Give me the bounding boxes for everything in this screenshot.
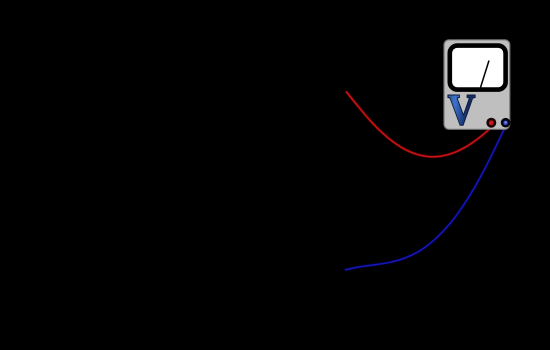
svg-text:V: V	[448, 86, 475, 134]
wire red probe lead	[347, 92, 493, 157]
voltmeter V label	[448, 86, 475, 134]
terminal red (+)	[486, 118, 496, 128]
voltmeter needle	[481, 61, 490, 88]
wire blue probe lead	[346, 127, 506, 270]
terminal blue (-)	[501, 118, 511, 128]
voltmeter U1 body	[444, 40, 510, 130]
voltmeter display	[450, 46, 506, 90]
